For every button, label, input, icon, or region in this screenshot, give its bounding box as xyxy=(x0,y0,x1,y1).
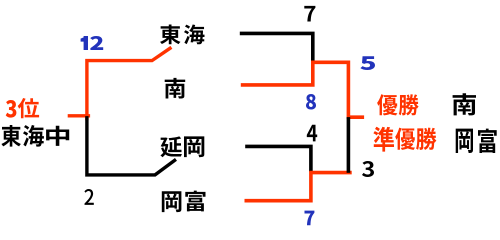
team 延岡 xyxy=(160,136,204,157)
wire: semifinal-1 東海 arm (black) xyxy=(242,33,313,62)
team 南 xyxy=(165,78,186,99)
wire: final runner-up side (black vertical) xyxy=(347,119,351,171)
wire: semifinal-2 延岡 arm (black) xyxy=(247,146,311,170)
team 東海中 (3rd place team) xyxy=(1,125,69,147)
score 7 (岡富, semifinal-2, blue) xyxy=(304,211,314,226)
wire: 3rd-place match winner bracket (red) from 東海 arm down to junction xyxy=(87,48,170,118)
team 岡富 xyxy=(162,191,206,212)
team 南 (champion) xyxy=(453,93,476,115)
wire: semifinal-2 岡富 arm and winner path to final (red) xyxy=(246,173,350,201)
wire: red winner stub pointing left to 3位 東海中 xyxy=(69,114,88,117)
wire: 3rd-place match loser bracket (black) down to 延岡 arm xyxy=(87,118,175,175)
team 岡富 (runner-up) xyxy=(456,129,497,153)
score 2 (延岡 in 3rd-place match) xyxy=(84,189,93,205)
score 4 (延岡, semifinal-2) xyxy=(307,125,317,142)
score 3 (岡富, final) xyxy=(362,161,374,177)
label 準優勝 (runner-up, red) xyxy=(373,127,436,152)
wire: semifinal-1 南 arm and winner path to final (red) xyxy=(243,62,363,117)
score 12 (blue, 東海 in 3rd-place match) xyxy=(81,36,104,50)
team 東海 xyxy=(160,24,204,44)
score 8 (南, semifinal-1, blue) xyxy=(306,94,316,110)
label 優勝 (champion, red) xyxy=(377,94,419,115)
score 5 (南, final, blue) xyxy=(360,56,375,70)
label 3位 (3rd place, red) xyxy=(6,98,39,118)
score 7 (東海, semifinal-1) xyxy=(304,6,315,22)
